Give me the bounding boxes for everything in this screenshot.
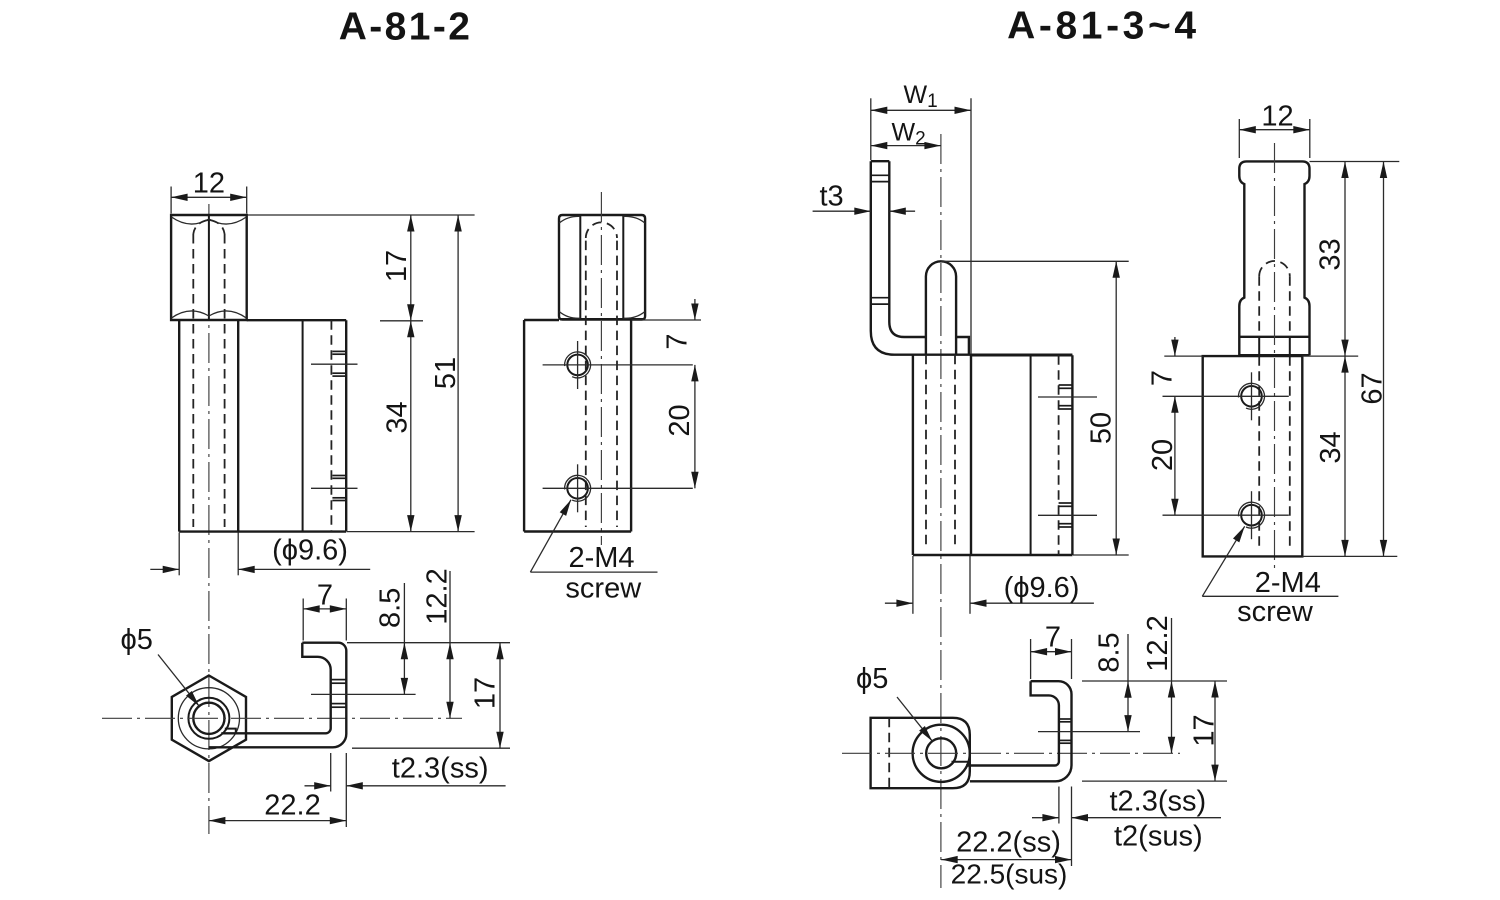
svg-text:7: 7 xyxy=(1045,622,1061,654)
dim 12.2 right xyxy=(1142,615,1174,753)
lip hole edge marks (bottom view) xyxy=(331,680,347,708)
nut thread hidden lines xyxy=(193,220,224,527)
svg-text:22.2: 22.2 xyxy=(264,790,320,822)
flange inner profile (front view) xyxy=(889,161,926,337)
barrel sides (front view) xyxy=(913,355,1073,555)
dim 33 xyxy=(1344,162,1346,357)
leaf crimp notch (bottom view) xyxy=(225,729,236,734)
leaf crimp notch (right bottom view) xyxy=(952,762,969,766)
flange hole edge marks (front view) xyxy=(871,175,890,304)
svg-text:(ϕ9.6): (ϕ9.6) xyxy=(1004,572,1080,604)
dim 67 xyxy=(1383,162,1385,557)
bottom view hex nut (hexagon) xyxy=(172,676,246,762)
post bottom edge xyxy=(1239,354,1309,356)
lip hole edge marks (right bottom view) xyxy=(1059,719,1072,743)
dim 8.5 right xyxy=(1094,632,1128,731)
J-leaf outer profile (bottom view) xyxy=(209,643,347,748)
centerline right side view axis xyxy=(1274,143,1276,571)
screw hole bottom (side view) xyxy=(543,464,693,512)
centerline left front+bottom view axis xyxy=(208,204,210,834)
flange top edge xyxy=(871,160,890,162)
dim 7 (side view) xyxy=(694,299,696,320)
svg-text:12: 12 xyxy=(1261,100,1293,132)
ref line pin dome top xyxy=(941,260,1129,262)
svg-text:17: 17 xyxy=(1189,714,1221,746)
svg-text:67: 67 xyxy=(1357,372,1389,404)
leaf hole edge marks (front view) xyxy=(1059,385,1073,527)
dim 20 (side view) xyxy=(694,365,696,488)
weld lug (bottom view) xyxy=(871,718,970,788)
centerline right front+bottom view axis xyxy=(940,134,942,888)
dim 50 xyxy=(1086,261,1118,555)
dim t2.3(ss) / t2(sus) right xyxy=(1032,786,1221,867)
svg-text:20: 20 xyxy=(664,404,696,436)
dim (phi9.6) xyxy=(150,533,370,576)
dim 17 xyxy=(410,215,412,321)
dim 34 xyxy=(410,321,412,532)
svg-text:ϕ5: ϕ5 xyxy=(856,663,888,695)
svg-text:20: 20 xyxy=(1147,439,1179,471)
dim 7 (right side view) xyxy=(1174,337,1176,356)
bottom view horizontal centerline xyxy=(102,717,462,719)
pin post profile (side view) xyxy=(1239,161,1309,355)
ref line lip top (right bottom view) xyxy=(1082,680,1227,682)
screw hole bottom (right side view) xyxy=(1163,491,1289,539)
side view body plate xyxy=(524,320,631,532)
svg-text:7: 7 xyxy=(662,333,694,349)
dim t2.3(ss) xyxy=(305,752,506,827)
nut chamfer circle xyxy=(178,688,239,749)
svg-text:t2(sus): t2(sus) xyxy=(1114,821,1203,853)
label phi5 with leader xyxy=(121,624,200,706)
ref lines right of front view xyxy=(248,215,475,532)
svg-text:17: 17 xyxy=(381,250,413,282)
ref line post top (side view) xyxy=(1310,161,1400,163)
dim 22.2(ss)/22.5(sus) xyxy=(941,827,1071,890)
svg-text:A-81-3~4: A-81-3~4 xyxy=(1007,5,1199,48)
dim 12.2 xyxy=(421,568,453,718)
J-leaf inner profile (bottom view) xyxy=(221,643,330,734)
svg-text:8.5: 8.5 xyxy=(1094,632,1126,672)
svg-text:screw: screw xyxy=(1237,596,1314,628)
label 2-M4 screw with leader xyxy=(530,500,657,605)
leaf hole edge marks front view xyxy=(332,351,345,500)
hidden pin dome (side view) xyxy=(1259,261,1290,550)
label 2-M4 screw right with leader xyxy=(1202,526,1338,628)
dim W2 xyxy=(871,119,941,150)
side view nut hidden thread xyxy=(586,222,617,527)
svg-text:17: 17 xyxy=(470,677,502,709)
dim 20 (right side view) xyxy=(1174,396,1176,515)
dim 22.2 xyxy=(209,790,346,822)
svg-text:12.2: 12.2 xyxy=(421,568,453,624)
dim W1 xyxy=(871,81,971,354)
dim 12 (nut width) xyxy=(171,167,247,213)
svg-text:screw: screw xyxy=(565,572,642,604)
nut washer-face circle xyxy=(188,698,229,739)
ref line lip top (bottom view) xyxy=(347,642,510,644)
svg-text:34: 34 xyxy=(381,401,413,433)
svg-text:34: 34 xyxy=(1315,431,1347,463)
hole center marks (front view) xyxy=(1038,397,1097,515)
dim 34 (right side view) xyxy=(1344,356,1346,556)
screw hole top (side view) xyxy=(543,341,693,389)
hole center marks front view xyxy=(311,364,358,488)
svg-text:7: 7 xyxy=(1146,370,1178,386)
svg-text:22.2(ss): 22.2(ss) xyxy=(956,827,1061,859)
svg-text:(ϕ9.6): (ϕ9.6) xyxy=(272,535,348,567)
svg-text:2-M4: 2-M4 xyxy=(568,542,634,574)
J-leaf inner profile (right bottom view) xyxy=(966,681,1059,765)
dim 12 (post width) xyxy=(1239,100,1310,158)
svg-text:50: 50 xyxy=(1086,412,1118,444)
svg-text:2-M4: 2-M4 xyxy=(1255,567,1321,599)
svg-text:t3: t3 xyxy=(820,181,844,213)
ref line body top (side view) xyxy=(632,319,702,321)
dim 51 xyxy=(457,215,459,532)
lug hidden edge xyxy=(888,718,890,788)
bottom view horizontal centerline right xyxy=(842,752,1180,754)
ref line leaf bottom (right bottom view) xyxy=(1082,780,1227,782)
svg-text:12: 12 xyxy=(193,167,225,199)
svg-text:51: 51 xyxy=(430,357,462,389)
dim t3 xyxy=(813,181,916,213)
ref line barrel bottom right xyxy=(1073,554,1129,556)
leaf front view xyxy=(179,320,346,531)
leaf hidden fold line xyxy=(330,320,332,531)
svg-text:A-81-2: A-81-2 xyxy=(339,6,473,49)
leaf (front view right part) xyxy=(971,355,1072,555)
knuckle outer circle (bottom view) xyxy=(913,725,970,782)
svg-text:t2.3(ss): t2.3(ss) xyxy=(1110,786,1207,818)
ref line body top right (side view) xyxy=(1302,355,1358,357)
svg-text:ϕ5: ϕ5 xyxy=(121,624,153,656)
flange outer profile (front view) xyxy=(871,161,1073,355)
dim 17 (bottom view) xyxy=(470,643,502,749)
pin hidden lines in barrel xyxy=(926,355,955,548)
phi5 hole circle right xyxy=(926,738,956,768)
dim 7 (bottom view lip width) xyxy=(303,580,346,641)
ref line body top left (side view) xyxy=(1164,355,1202,357)
phi5 hole circle xyxy=(193,703,224,734)
svg-text:t2.3(ss): t2.3(ss) xyxy=(392,752,489,784)
leaf hidden fold line (front view) xyxy=(1058,355,1060,555)
svg-text:7: 7 xyxy=(317,580,333,612)
svg-text:8.5: 8.5 xyxy=(375,588,407,628)
svg-text:33: 33 xyxy=(1314,238,1346,270)
lip hole centerline (bottom view) xyxy=(311,693,416,695)
J-leaf outer profile (right bottom view) xyxy=(970,681,1072,781)
label phi5 right with leader xyxy=(856,663,932,741)
dim (phi9.6) right xyxy=(885,556,1094,614)
dim 8.5 xyxy=(375,583,407,694)
lip hole centerline (right bottom view) xyxy=(1038,731,1140,733)
svg-text:12.2: 12.2 xyxy=(1142,615,1174,671)
post crimp band line xyxy=(1239,336,1309,338)
hex nut front view xyxy=(171,215,247,320)
leaf plate right segment + end face (front view) xyxy=(956,337,969,355)
dim 17 (right bottom view) xyxy=(1189,681,1221,781)
pin barrel front view xyxy=(179,320,238,532)
ref line body bottom right (side view) xyxy=(1302,555,1397,557)
pin end visible in crimp slot xyxy=(1259,337,1290,355)
screw hole top (right side view) xyxy=(1163,372,1289,420)
side view hex nut xyxy=(559,215,645,320)
centerline side view axis xyxy=(600,192,602,545)
body plate (side view) xyxy=(1203,356,1303,556)
ref line leaf bottom (bottom view) xyxy=(352,747,510,749)
hinge pin with dome top (front view) xyxy=(926,261,956,354)
svg-text:22.5(sus): 22.5(sus) xyxy=(951,859,1068,890)
dim 7 (right bottom view) xyxy=(1031,622,1072,680)
